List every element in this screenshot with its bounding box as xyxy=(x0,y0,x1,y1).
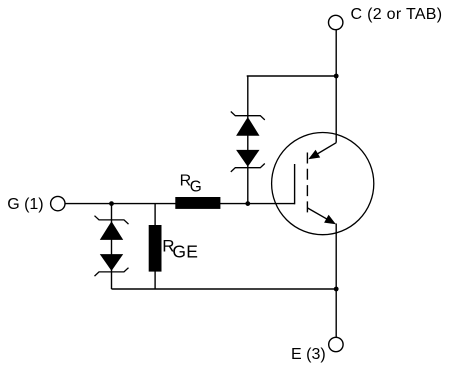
svg-text:G: G xyxy=(190,178,202,195)
svg-text:G (1): G (1) xyxy=(7,196,43,213)
svg-text:E (3): E (3) xyxy=(291,346,326,363)
svg-text:C (2 or TAB): C (2 or TAB) xyxy=(351,6,443,23)
svg-text:GE: GE xyxy=(172,242,198,262)
